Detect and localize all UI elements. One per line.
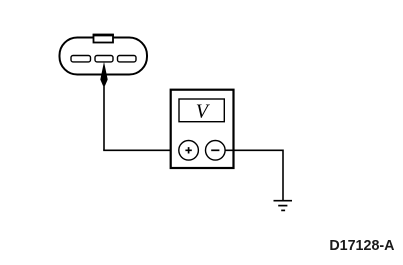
plus sign in positive terminal: [185, 147, 191, 153]
voltmeter V1 display window: [179, 99, 224, 122]
voltmeter positive terminal: [179, 141, 199, 161]
probe arrow into pin cavity 2: [100, 62, 107, 86]
connector pin cavity 1: [71, 56, 91, 62]
wire: from voltmeter - terminal to the right: [225, 149, 283, 151]
connector pin cavity 2: [95, 56, 113, 62]
voltmeter V1 case: [171, 90, 234, 168]
minus sign in negative terminal: [211, 149, 219, 151]
connector J1 locking tab: [94, 35, 114, 43]
voltmeter negative terminal: [206, 141, 226, 161]
connector pin cavity 3: [118, 56, 137, 62]
wire: vertical from probe arrow down: [103, 84, 105, 150]
wire: vertical down to ground: [282, 150, 284, 201]
ground symbol: [274, 201, 293, 211]
connector J1 body (oval shell): [60, 38, 148, 75]
wire: horizontal to voltmeter + terminal: [103, 149, 179, 151]
svg-text:D17128-A: D17128-A: [329, 238, 394, 254]
connector J1 locking tab top edge: [93, 34, 114, 36]
